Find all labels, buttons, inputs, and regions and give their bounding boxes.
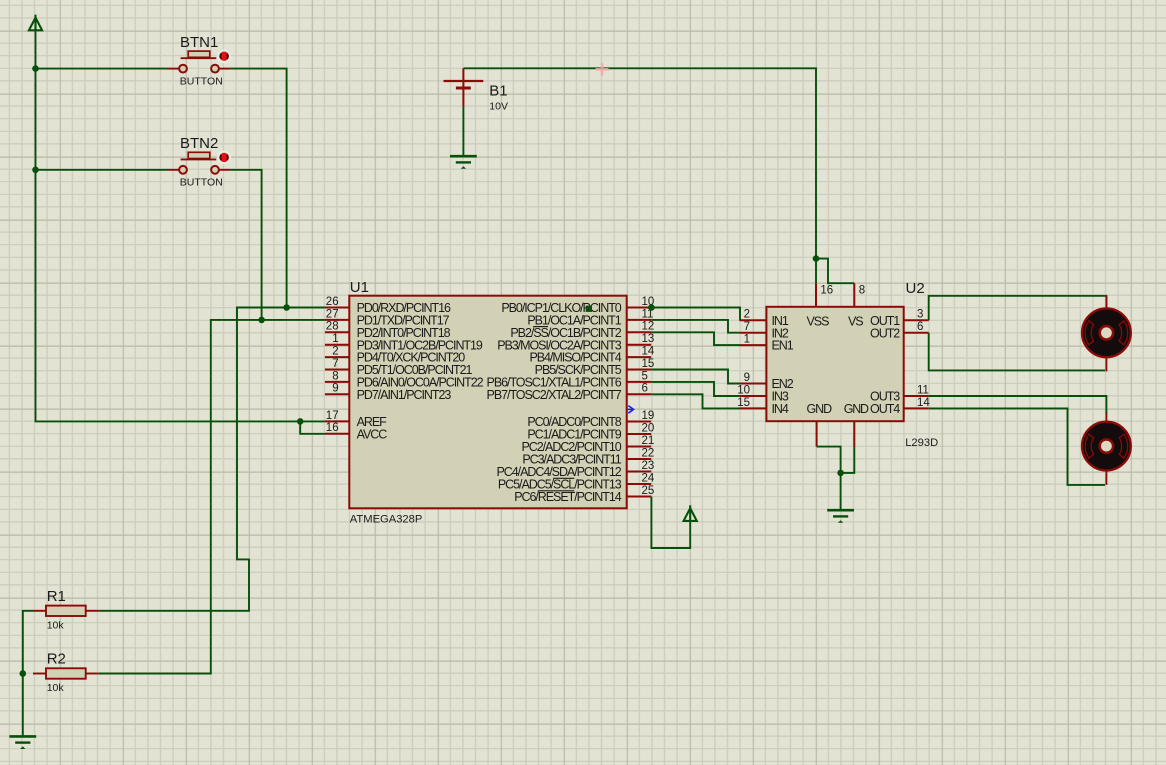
U1 pin 27 PD1 — [325, 308, 450, 327]
U1 pin 28 PD2 — [325, 321, 451, 340]
power symbol VCC (PC6) — [684, 505, 697, 522]
U2 pin 6 OUT2 — [870, 321, 929, 340]
motor M2 — [1082, 422, 1131, 471]
node junction rail-BTN1 — [32, 65, 39, 72]
U1 pin 23 PC4 — [497, 460, 655, 479]
U1 pin 2 PD4 — [325, 346, 465, 365]
IC U2 L293D body — [766, 307, 903, 421]
U2 pin 11 OUT3 — [870, 384, 929, 403]
svg-text:14: 14 — [917, 397, 930, 409]
svg-text:1: 1 — [744, 334, 750, 346]
wire PD1 net to R2 — [99, 320, 325, 674]
U1 pin 14 PB4 — [529, 346, 654, 365]
ground (bottom-left) — [9, 736, 36, 749]
svg-text:21: 21 — [642, 435, 655, 447]
wire rail to BTN1 — [36, 68, 168, 70]
wire OUT2 to motor1 bottom — [929, 333, 1105, 371]
node junction BTN2-PD1 — [258, 317, 265, 324]
ground (battery) — [450, 156, 477, 169]
svg-text:19: 19 — [642, 410, 655, 422]
wire BTN1 to PD0 net — [230, 69, 286, 308]
U2 pin 8 VS — [848, 283, 865, 328]
node junction VSS-VS branch — [813, 255, 820, 262]
U1 pin 16 AVCC — [325, 422, 387, 441]
svg-text:22: 22 — [642, 447, 655, 459]
wire PC6 to VCC arrow — [651, 497, 690, 549]
svg-text:L293D: L293D — [905, 437, 938, 449]
svg-text:25: 25 — [642, 485, 655, 497]
svg-text:16: 16 — [326, 422, 339, 434]
svg-text:AVCC: AVCC — [357, 427, 388, 441]
svg-text:R2: R2 — [47, 651, 66, 668]
wire left VCC rail to AREF — [36, 31, 325, 421]
U1 pin 20 PC1 — [527, 422, 654, 441]
ground (U2) — [827, 510, 854, 523]
wire OUT1 to motor1 top — [929, 296, 1107, 321]
U2 pin 7 IN2 — [739, 321, 789, 340]
motor1 top pin — [1105, 296, 1107, 309]
wire PD0 net to R1 — [99, 308, 325, 611]
wire battery positive to U2 VSS — [463, 68, 816, 283]
power symbol VCC (top-left) — [29, 15, 42, 32]
U1 pin 7 PD5 — [325, 358, 473, 377]
overline SS (U1 PB2) — [533, 326, 548, 328]
svg-text:16: 16 — [820, 284, 833, 296]
motor2 top pin — [1105, 413, 1107, 422]
svg-text:PD7/AIN1/PCINT23: PD7/AIN1/PCINT23 — [357, 388, 452, 402]
U1 pin 1 PD3 — [325, 333, 483, 352]
U2 pin 9 EN2 — [739, 372, 793, 391]
svg-text:ATMEGA328P: ATMEGA328P — [350, 514, 423, 526]
wire R1 to ground rail — [23, 611, 33, 736]
resistor R2 10k — [33, 651, 99, 694]
svg-text:12: 12 — [642, 321, 655, 333]
overline SCL (U1 PC5) — [553, 477, 574, 479]
wire rail to BTN2 — [36, 169, 168, 171]
svg-text:9: 9 — [744, 372, 750, 384]
motor M1 — [1082, 308, 1131, 357]
wire PB7 to U2 IN4 — [651, 394, 740, 408]
svg-text:15: 15 — [642, 358, 655, 370]
wire OUT4 to motor2 bottom — [929, 408, 1105, 485]
svg-text:8: 8 — [859, 284, 865, 296]
svg-text:28: 28 — [326, 321, 339, 333]
U1 pin 25 PC6 — [514, 485, 654, 504]
battery B1 10V — [444, 68, 508, 112]
svg-text:23: 23 — [642, 460, 655, 472]
wire PB5 to U2 EN2 — [651, 370, 740, 384]
svg-text:10V: 10V — [489, 101, 508, 113]
svg-text:6: 6 — [917, 321, 923, 333]
wire PB0 to U2 IN1 — [651, 308, 740, 321]
svg-text:IN4: IN4 — [772, 402, 789, 416]
svg-text:9: 9 — [332, 383, 338, 395]
wire BTN2 to PD1 net — [230, 170, 261, 320]
svg-text:PC6/RESET/PCINT14: PC6/RESET/PCINT14 — [514, 490, 622, 504]
svg-text:2: 2 — [332, 346, 338, 358]
node junction AREF-AVCC — [297, 418, 304, 425]
svg-text:27: 27 — [326, 308, 339, 320]
svg-text:OUT2: OUT2 — [870, 326, 900, 340]
U1 pin 21 PC2 — [521, 435, 654, 454]
svg-text:GND: GND — [807, 402, 833, 416]
IC U1 ATMEGA328P body — [349, 296, 626, 509]
U1 pin 10 PB0 — [501, 296, 654, 315]
U2 pin 14 OUT4 — [870, 397, 930, 416]
svg-text:7: 7 — [332, 358, 338, 370]
marker blue arrow (U1 right) — [628, 406, 634, 414]
marker origin cross (pink) — [596, 63, 609, 76]
svg-text:BTN1: BTN1 — [180, 34, 218, 51]
U2 pin 16 VSS — [807, 283, 834, 328]
wire OUT3 to motor2 top — [929, 396, 1107, 414]
svg-text:14: 14 — [642, 346, 655, 358]
pushbutton BTN1 — [167, 34, 230, 87]
svg-text:OUT4: OUT4 — [870, 402, 900, 416]
wire PB6 to U2 IN3 — [651, 382, 739, 396]
marker green square on PB0 text — [586, 306, 592, 312]
svg-text:10: 10 — [737, 384, 750, 396]
U2 pin 1 EN1 — [739, 334, 793, 353]
wire battery to ground — [462, 107, 464, 156]
U1 pin 6 PB7 — [487, 383, 652, 402]
U1 pin 24 PC5 — [498, 472, 655, 491]
svg-text:10k: 10k — [47, 619, 65, 631]
svg-text:EN1: EN1 — [772, 339, 794, 353]
U2 pin 15 IN4 — [737, 397, 789, 416]
svg-text:GND: GND — [844, 402, 869, 416]
U1 pin 8 PD6 — [325, 370, 484, 389]
motor2 bottom pin — [1105, 471, 1107, 485]
svg-text:13: 13 — [642, 333, 655, 345]
U1 pin 9 PD7 — [325, 383, 451, 402]
U1 pin 12 PB2 — [510, 321, 654, 340]
wire junction to AVCC — [300, 421, 325, 433]
svg-text:11: 11 — [917, 384, 929, 396]
svg-text:R1: R1 — [47, 588, 66, 605]
svg-text:U1: U1 — [350, 279, 369, 296]
svg-text:VSS: VSS — [807, 315, 830, 329]
svg-text:20: 20 — [642, 422, 655, 434]
svg-text:3: 3 — [917, 309, 923, 321]
svg-text:5: 5 — [642, 370, 648, 382]
motor1 bottom pin — [1105, 357, 1107, 371]
wire PB1 to U2 IN2 — [651, 320, 739, 333]
svg-text:U2: U2 — [906, 280, 925, 297]
svg-text:2: 2 — [744, 309, 750, 321]
wire branch to U2 VS — [816, 259, 854, 284]
U2 pin 2 IN1 — [739, 309, 789, 328]
svg-text:15: 15 — [737, 397, 750, 409]
U2 pin GND (left) — [807, 402, 833, 446]
svg-text:BTN2: BTN2 — [180, 135, 218, 152]
svg-text:BUTTON: BUTTON — [180, 75, 223, 87]
node junction rail-BTN2 — [32, 167, 39, 174]
node junction U2 grounds — [837, 470, 844, 477]
U1 pin 26 PD0 — [325, 296, 451, 315]
svg-text:PB7/TOSC2/XTAL2/PCINT7: PB7/TOSC2/XTAL2/PCINT7 — [487, 388, 622, 402]
U1 pin 11 PB1 — [527, 308, 653, 327]
overline RESET (U1 PC6) — [538, 490, 575, 492]
wire U2 GND-right to ground — [841, 447, 855, 473]
svg-text:6: 6 — [642, 383, 648, 395]
node junction PB0 stub — [648, 304, 655, 311]
svg-text:26: 26 — [326, 296, 339, 308]
svg-text:VS: VS — [848, 315, 863, 329]
U1 pin 19 PC0 — [527, 410, 654, 429]
resistor R1 10k — [33, 588, 99, 631]
svg-text:24: 24 — [642, 472, 655, 484]
U1 pin 15 PB5 — [535, 358, 655, 377]
wire PB2 to U2 EN1 — [651, 332, 740, 345]
U2 pin 10 IN3 — [737, 384, 789, 403]
U1 pin 22 PC3 — [522, 447, 654, 466]
svg-text:17: 17 — [326, 410, 339, 422]
U1 pin 17 AREF — [325, 410, 387, 429]
svg-text:BUTTON: BUTTON — [180, 177, 223, 189]
U1 pin 13 PB3 — [497, 333, 654, 352]
svg-text:10k: 10k — [47, 682, 65, 694]
node junction BTN1-PD0 — [283, 304, 290, 311]
node junction R1-R2 ground — [20, 670, 27, 677]
svg-text:B1: B1 — [489, 83, 507, 100]
svg-text:7: 7 — [744, 321, 750, 333]
wire U2 GND-left to ground — [817, 447, 841, 509]
svg-text:8: 8 — [332, 370, 338, 382]
svg-text:1: 1 — [332, 333, 338, 345]
pushbutton BTN2 — [167, 135, 230, 188]
U2 pin 3 OUT1 — [870, 309, 929, 328]
U1 pin 5 PB6 — [487, 370, 652, 389]
U2 pin GND (right) — [844, 402, 869, 447]
